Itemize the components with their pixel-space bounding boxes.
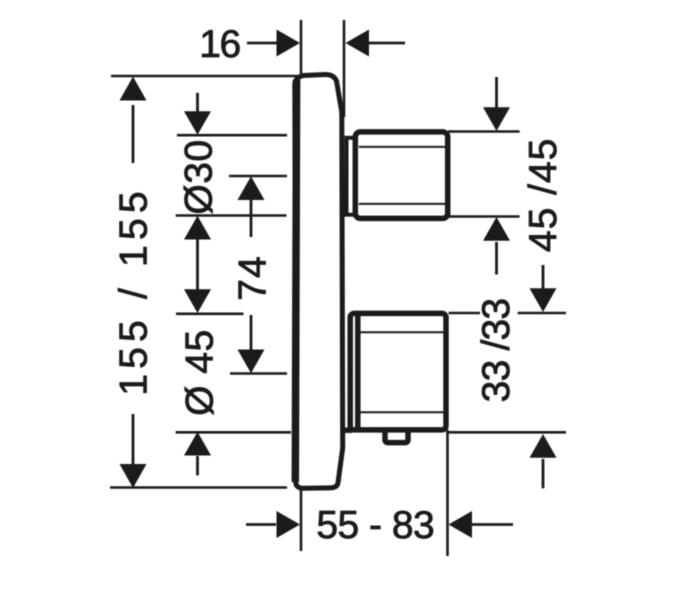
svg-text:74: 74 (232, 255, 275, 300)
svg-text:Ø 45: Ø 45 (179, 329, 222, 416)
svg-text:16: 16 (199, 23, 239, 66)
svg-text:33 /33: 33 /33 (475, 299, 518, 403)
svg-text:45 /45: 45 /45 (522, 138, 565, 252)
svg-text:155 / 155: 155 / 155 (112, 186, 155, 395)
svg-text:Ø30: Ø30 (178, 139, 221, 214)
svg-text:55 - 83: 55 - 83 (316, 504, 434, 547)
